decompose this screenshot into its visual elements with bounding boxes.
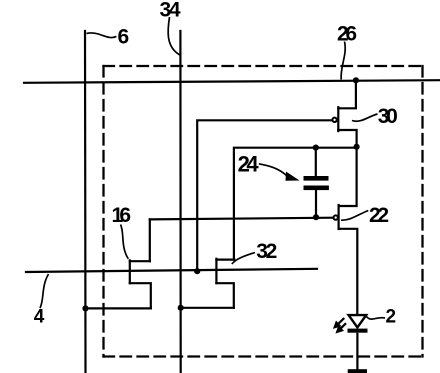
svg-text:30: 30 <box>378 105 398 128</box>
transistor Q30 source wire from power line <box>338 80 356 108</box>
LED D2 bottom lead <box>356 333 358 370</box>
leader for label 30 <box>352 114 378 121</box>
wire: data line 34 (vertical) <box>179 31 182 373</box>
arrowhead of leader 24 <box>286 172 300 181</box>
svg-text:22: 22 <box>369 204 389 227</box>
node dot on line 6 <box>82 305 88 311</box>
transistor Q22 source wire from node <box>339 147 357 206</box>
node dot at Q30 source on power line <box>353 77 359 83</box>
leader for label 2 <box>367 317 386 320</box>
leader for label 22 <box>341 211 368 221</box>
transistor Q22 gate bubble <box>334 215 338 219</box>
svg-text:34: 34 <box>160 0 181 22</box>
svg-text:24: 24 <box>238 152 260 177</box>
transistor Q32 top jog <box>216 259 234 261</box>
transistor Q30 drain wire to node <box>338 130 356 147</box>
transistor Q22 channel bar <box>338 205 340 229</box>
wire: select line 4 (horizontal) <box>26 269 317 272</box>
svg-text:6: 6 <box>118 25 130 48</box>
transistor Q30 gate bubble <box>332 118 336 122</box>
svg-text:26: 26 <box>337 22 357 45</box>
transistor Q16 top jog <box>130 260 150 262</box>
pixel boundary (dashed box) <box>104 66 423 357</box>
transistor Q30 channel bar <box>337 107 339 131</box>
node dot at capacitor top <box>313 145 319 151</box>
transistor Q32 drain wire down <box>216 283 233 308</box>
leader for label 4 <box>40 274 49 308</box>
svg-text:4: 4 <box>34 306 45 327</box>
wire: Q32 to data line 34 <box>181 307 234 309</box>
transistor Q16 channel bar <box>129 260 131 283</box>
wire: power line 26 (horizontal) <box>24 80 440 83</box>
leader for label 34 <box>168 17 180 55</box>
LED D2 emission arrow upper <box>335 318 345 327</box>
LED D2 emission arrow lower <box>337 323 346 332</box>
transistor Q16 top wire to gate of Q22 <box>149 219 151 261</box>
capacitor C24 bottom plate <box>304 186 329 191</box>
node dot on line 34 <box>178 305 184 311</box>
transistor Q22 drain wire down to LED <box>339 229 358 315</box>
wire: gate line of Q22 / storage node <box>150 218 333 220</box>
wire: Q16 to column line 6 <box>86 307 151 309</box>
leader for label 32 <box>232 253 255 265</box>
leader for label 24 <box>259 164 288 177</box>
leader for label 16 <box>121 225 129 259</box>
svg-text:16: 16 <box>112 204 132 227</box>
transistor Q16 drain wire down <box>130 283 151 308</box>
wire: column line 6 (vertical) <box>84 31 87 373</box>
LED D2 cathode bar <box>348 329 368 333</box>
LED D2 triangle <box>349 315 367 327</box>
capacitor C24 top lead <box>315 148 317 176</box>
svg-text:32: 32 <box>256 240 277 263</box>
node dot at capacitor bottom <box>313 214 319 220</box>
wire: node line between Q30 drain and capacitor / Q32 <box>234 148 357 260</box>
transistor Q30 gate wire <box>197 120 332 271</box>
capacitor C24 bottom lead <box>315 190 317 217</box>
leader for label 26 <box>341 42 345 80</box>
leader for label 6 <box>87 33 117 38</box>
node dot at Q30 drain <box>354 144 360 150</box>
transistor Q32 channel bar <box>215 259 217 283</box>
capacitor C24 top plate <box>304 176 329 181</box>
node dot at Q30 gate on select line <box>194 268 200 274</box>
svg-text:2: 2 <box>386 307 397 328</box>
LED D2 bottom electrode bar <box>348 369 367 373</box>
